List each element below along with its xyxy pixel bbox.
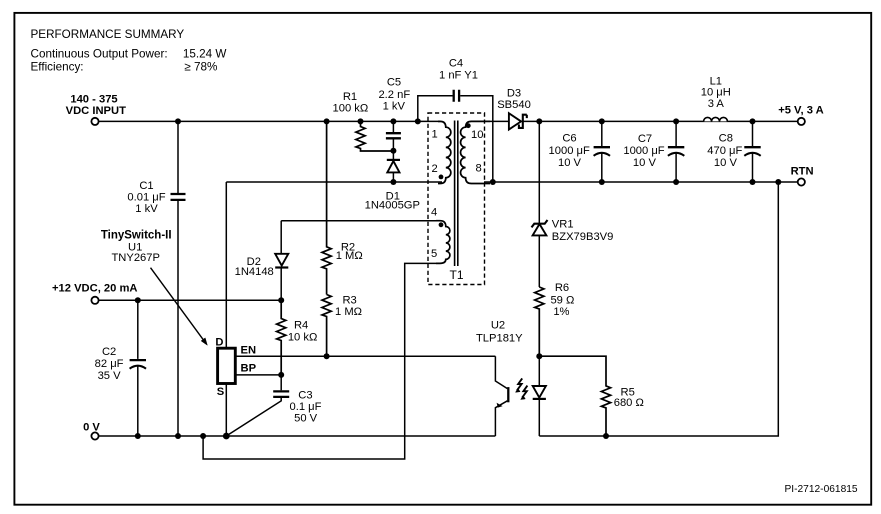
- svg-text:D: D: [215, 337, 223, 349]
- diode D3: [490, 88, 798, 130]
- svg-text:TinySwitch-II: TinySwitch-II: [101, 229, 172, 241]
- resistor R2: [322, 121, 363, 294]
- junction C1 tap: [175, 118, 181, 124]
- junction D1-drain rail: [390, 179, 396, 185]
- optocoupler U2 labels: [476, 319, 523, 344]
- junction C2 bottom: [135, 433, 141, 439]
- svg-text:BP: BP: [241, 363, 257, 375]
- transformer T1 primary winding: [438, 121, 451, 183]
- junction C5 tap: [390, 118, 396, 124]
- wire BP line: [235, 374, 281, 376]
- wire input HV rail: [99, 120, 441, 122]
- zener VR1: [532, 121, 614, 287]
- svg-text:1 kV: 1 kV: [383, 100, 406, 112]
- svg-text:10 V: 10 V: [714, 157, 738, 169]
- svg-text:PERFORMANCE SUMMARY: PERFORMANCE SUMMARY: [31, 28, 185, 41]
- junction C8 bottom: [750, 179, 756, 185]
- junction C8 top: [750, 118, 756, 124]
- transformer T1 primary phase dot: [439, 175, 444, 180]
- svg-text:C7: C7: [638, 133, 652, 145]
- wire drain rail (pin 2 to U1 D): [226, 181, 442, 183]
- capacitor C5: [378, 77, 410, 151]
- svg-text:10 μH: 10 μH: [701, 87, 731, 99]
- optocoupler U2 phototransistor: [495, 356, 508, 436]
- junction LED-R5 node: [536, 353, 542, 359]
- junction C7 top: [673, 118, 679, 124]
- junction C7 bottom: [673, 179, 679, 185]
- junction C6 top: [599, 118, 605, 124]
- svg-text:8: 8: [476, 162, 482, 174]
- svg-text:2.2 nF: 2.2 nF: [378, 89, 410, 101]
- svg-text:1N4148: 1N4148: [235, 266, 274, 278]
- node +12V terminal: [52, 283, 138, 304]
- capacitor C2: [95, 300, 146, 436]
- svg-text:T1: T1: [449, 268, 463, 282]
- capacitor C6: [549, 121, 610, 182]
- junction VR1 tap: [536, 118, 542, 124]
- svg-text:10: 10: [471, 129, 483, 141]
- callout arrow: [151, 268, 208, 346]
- wire 0V rail: [99, 435, 496, 437]
- wire EN line: [235, 355, 495, 357]
- junction R1 tap: [358, 118, 364, 124]
- svg-text:1000 μF: 1000 μF: [549, 145, 590, 157]
- svg-text:C8: C8: [719, 133, 733, 145]
- svg-text:5: 5: [431, 248, 437, 260]
- wire +12V rail: [99, 299, 282, 301]
- diode D2: [235, 221, 436, 301]
- svg-text:Efficiency:: Efficiency:: [31, 60, 84, 73]
- svg-text:U2: U2: [491, 319, 505, 331]
- svg-text:C3: C3: [298, 390, 312, 402]
- svg-text:1%: 1%: [553, 306, 569, 318]
- capacitor C4: [418, 58, 493, 182]
- svg-text:C2: C2: [102, 346, 116, 358]
- wire secondary feedback return: [539, 182, 778, 436]
- junction C1 bottom: [175, 433, 181, 439]
- svg-text:10 kΩ: 10 kΩ: [288, 332, 318, 344]
- node +5V output terminal: [778, 104, 824, 125]
- diode D1: [365, 151, 420, 212]
- svg-text:10 V: 10 V: [633, 157, 657, 169]
- svg-text:0.01 μF: 0.01 μF: [127, 192, 165, 204]
- svg-text:15.24 W: 15.24 W: [183, 48, 227, 61]
- capacitor C7: [623, 121, 684, 182]
- svg-text:10 V: 10 V: [558, 157, 582, 169]
- junction C2 top: [135, 297, 141, 303]
- junction R5 bottom: [603, 433, 609, 439]
- svg-text:1000 μF: 1000 μF: [623, 145, 664, 157]
- junction R3 to EN: [324, 353, 330, 359]
- svg-text:4: 4: [431, 207, 437, 219]
- wire U1 source to 0V: [225, 384, 227, 437]
- wire bias winding pin 5 return loop: [203, 263, 436, 459]
- transformer T1 secondary winding: [461, 121, 490, 183]
- optocoupler U2 photon arrows: [516, 378, 528, 399]
- svg-text:470 μF: 470 μF: [707, 145, 742, 157]
- junction S-C3-0V node: [223, 433, 230, 440]
- junction R1-C5-D1 node: [390, 148, 396, 154]
- junction BP-R4-C3 node: [278, 372, 284, 378]
- svg-text:100 kΩ: 100 kΩ: [333, 103, 369, 115]
- svg-text:L1: L1: [710, 75, 722, 87]
- svg-text:RTN: RTN: [791, 166, 814, 178]
- svg-text:C1: C1: [139, 180, 153, 192]
- label U1 TinySwitch-II callout: [101, 229, 172, 264]
- transformer T1 secondary phase dot: [466, 123, 471, 128]
- junction C4 tap: [415, 118, 421, 124]
- svg-text:R3: R3: [342, 295, 356, 307]
- svg-text:1 MΩ: 1 MΩ: [336, 250, 363, 262]
- resistor R3: [322, 295, 362, 357]
- svg-text:BZX79B3V9: BZX79B3V9: [552, 231, 614, 243]
- resistor R1: [333, 91, 394, 151]
- svg-text:D3: D3: [507, 88, 521, 100]
- svg-text:3 A: 3 A: [708, 98, 725, 110]
- svg-text:Continuous Output Power:: Continuous Output Power:: [31, 48, 168, 61]
- svg-text:R1: R1: [343, 91, 357, 103]
- svg-text:TNY267P: TNY267P: [111, 252, 160, 264]
- svg-text:S: S: [217, 386, 225, 398]
- junction bias return: [200, 433, 206, 439]
- svg-text:C4: C4: [449, 58, 463, 70]
- svg-text:R4: R4: [294, 320, 308, 332]
- svg-text:TLP181Y: TLP181Y: [476, 333, 523, 345]
- junction C6 bottom: [599, 179, 605, 185]
- svg-text:680 Ω: 680 Ω: [614, 397, 644, 409]
- svg-text:+12 VDC, 20 mA: +12 VDC, 20 mA: [52, 283, 138, 295]
- transformer T1 bias winding: [436, 221, 450, 264]
- transformer T1 bias phase dot: [439, 222, 444, 227]
- svg-text:VDC INPUT: VDC INPUT: [66, 105, 126, 117]
- junction feedback return tap: [775, 179, 781, 185]
- svg-text:59 Ω: 59 Ω: [550, 294, 574, 306]
- resistor R4: [277, 300, 318, 375]
- transformer T1 core: [455, 121, 458, 267]
- svg-text:1 kV: 1 kV: [135, 203, 158, 215]
- node RTN terminal: [791, 166, 814, 186]
- svg-text:1 nF Y1: 1 nF Y1: [439, 70, 478, 82]
- svg-text:C5: C5: [387, 77, 401, 89]
- optocoupler U2 LED: [533, 356, 546, 436]
- svg-text:140 - 375: 140 - 375: [70, 93, 117, 105]
- junction R2 tap: [324, 118, 330, 124]
- capacitor C8: [707, 121, 760, 182]
- resistor R6: [535, 282, 575, 356]
- svg-text:82 μF: 82 μF: [95, 358, 124, 370]
- svg-text:1: 1: [432, 129, 438, 141]
- inductor L1: [701, 75, 731, 121]
- junction D2-R4-12V node: [278, 297, 284, 303]
- svg-text:R6: R6: [555, 282, 569, 294]
- wire pin 8 to RTN rail: [484, 181, 798, 183]
- junction C4 to RTN rail: [490, 179, 496, 185]
- node VDC INPUT terminal: [66, 93, 126, 125]
- svg-text:35 V: 35 V: [98, 370, 122, 382]
- resistor R5: [539, 356, 644, 436]
- svg-text:1 MΩ: 1 MΩ: [335, 306, 362, 318]
- capacitor C1: [127, 121, 185, 436]
- svg-text:1N4005GP: 1N4005GP: [365, 200, 420, 212]
- svg-text:0 V: 0 V: [83, 422, 100, 434]
- svg-text:+5 V, 3 A: +5 V, 3 A: [778, 104, 824, 116]
- svg-text:C6: C6: [562, 133, 576, 145]
- svg-text:EN: EN: [241, 344, 257, 356]
- node 0V terminal: [83, 422, 100, 440]
- svg-text:SB540: SB540: [497, 99, 531, 111]
- svg-text:PI-2712-061815: PI-2712-061815: [785, 484, 858, 495]
- capacitor C3: [226, 375, 321, 436]
- svg-text:2: 2: [432, 163, 438, 175]
- svg-text:VR1: VR1: [552, 219, 574, 231]
- IC U1 TinySwitch-II body: [218, 348, 236, 383]
- svg-text:≥ 78%: ≥ 78%: [184, 60, 217, 73]
- wire U1 drain riser: [225, 182, 227, 348]
- transformer T1 shield box: [428, 113, 485, 285]
- svg-text:50 V: 50 V: [294, 412, 318, 424]
